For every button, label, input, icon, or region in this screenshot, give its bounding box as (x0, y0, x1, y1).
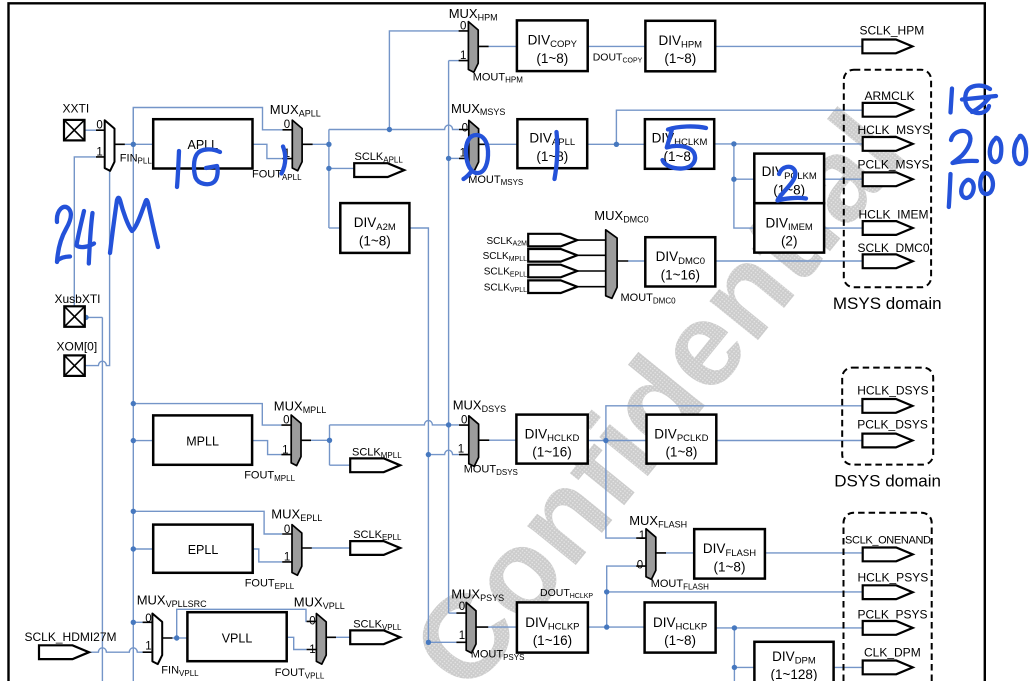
junction A2M bus at MUXPSYS1 (426, 640, 431, 645)
pin stubs MUX_FLASH (636, 538, 666, 566)
svg-text:SCLK_ONENAND: SCLK_ONENAND (845, 535, 931, 547)
svg-text:(1~8): (1~8) (664, 633, 696, 648)
wire FIN_VPLL to MUX_VPLL input0 (177, 609, 307, 638)
svg-text:SCLK_DMC0: SCLK_DMC0 (858, 241, 930, 255)
junction HCLKM branch (731, 141, 736, 146)
wire FIN to MPLL input (133, 440, 153, 442)
wire FIN to EPLL input (133, 548, 153, 550)
svg-text:(1~8): (1~8) (664, 51, 696, 66)
wire A2M bus to MUX_DSYS input1 with hop over MPLL bus (428, 450, 459, 454)
wire MPLL out to MUX_MPLL input1 (252, 441, 282, 455)
divider DIV_IMEM (754, 203, 824, 252)
wire APLL out to MUX_APLL input1 (252, 144, 282, 158)
junction MOUT_MPLL (327, 438, 332, 443)
wire node SCLKMPLL vertical (329, 425, 331, 465)
svg-text:(1~8): (1~8) (665, 445, 697, 460)
wire DIV_HCLKP16 out to DIV_HCLKP8 (588, 626, 645, 628)
pin stubs MUX_DMC0 inputs and output (577, 240, 628, 287)
wire XusbXTI bus x=102.4 (101, 317, 103, 681)
wire MUX_APLL output junction (312, 143, 329, 145)
wire node HCLK_DSYS branch (606, 406, 863, 441)
annotation handwritten 200 (951, 131, 977, 163)
svg-text:HCLK_MSYS: HCLK_MSYS (858, 123, 931, 137)
mux MUX_MSYS (469, 120, 479, 171)
annotation 2 on DIV_PCLKM (778, 167, 807, 201)
svg-text:XOM[0]: XOM[0] (57, 340, 98, 354)
output arrow PCLK_PSYS (863, 621, 913, 635)
pin stubs MUX_APLL (283, 130, 313, 159)
junction FIN at MUXVPLLSRC0 (131, 620, 136, 625)
divider DIV_HPM (645, 21, 715, 72)
svg-text:(1~16): (1~16) (532, 445, 571, 460)
annotation handwritten 100 (949, 174, 951, 207)
wire FINPLL mux output to APLL (124, 143, 153, 145)
wire node CLK_DPM feed to DIV_DPM (733, 628, 735, 681)
wire node DOUT_HCLKP up to MUX_FLASH input0 (607, 566, 637, 627)
svg-text:0: 0 (459, 601, 465, 613)
pin stubs MUX_FINPLL (96, 130, 125, 157)
svg-text:1: 1 (96, 146, 102, 158)
pin stubs MUX_VPLL (307, 621, 336, 649)
svg-text:CLK_DPM: CLK_DPM (864, 645, 921, 659)
wire SCLK_MPLL arrow feed (330, 464, 351, 466)
input arrow SCLK_HDMI27M (39, 645, 89, 659)
wire MPLL bus to MUX_PSYS input0 (449, 612, 457, 614)
svg-text:HCLK_PSYS: HCLK_PSYS (858, 570, 929, 584)
mux MUX_PSYS (466, 602, 476, 653)
svg-text:1: 1 (639, 530, 645, 542)
svg-text:XusbXTI: XusbXTI (55, 292, 101, 306)
pin stubs MUX_MSYS (459, 130, 489, 159)
svg-text:0: 0 (283, 415, 289, 427)
output arrow HCLK_PSYS (863, 585, 913, 599)
svg-text:(1~16): (1~16) (533, 633, 572, 648)
junction DOUT_HCLKP (604, 624, 609, 629)
svg-text:1: 1 (145, 641, 151, 653)
svg-text:1: 1 (282, 444, 288, 456)
wire node HCLKM vertical feed PCLKM/IMEM (734, 144, 754, 228)
junction PCLKM feed (731, 177, 736, 182)
wire XOM[0] select with hop over x=102.4 (86, 169, 110, 366)
svg-text:DSYS domain: DSYS domain (834, 471, 941, 490)
annotation stroke on MUX_APLL pin1 (282, 147, 286, 174)
input arrow SCLKEPLL to DMC0 (528, 265, 577, 278)
svg-text:PCLK_DSYS: PCLK_DSYS (857, 418, 928, 432)
divider DIV_COPY (517, 20, 588, 71)
mux MUX_DSYS (469, 416, 479, 467)
wire DIV_A2M out to SCLKA2M bus (409, 228, 428, 642)
pin stubs MUX_MPLL (281, 425, 311, 455)
divider DIV_FLASH (694, 529, 765, 579)
svg-text:MPLL: MPLL (186, 435, 219, 449)
output arrow SCLK_EPLL (350, 541, 400, 555)
wire DIV_DMC0 out to SCLK_DMC0 (715, 260, 862, 262)
wire XusbXTI top to FINPLL mux input1 (74, 157, 96, 306)
wire DIV_PCLKM out to PCLK_MSYS (824, 178, 863, 180)
wire MUX_HPM out to DIV_COPY (488, 45, 517, 47)
svg-text:MSYS domain: MSYS domain (833, 294, 942, 313)
output arrow SCLK_HPM (862, 40, 912, 54)
input arrow SCLKMPLL to DMC0 (528, 249, 577, 262)
svg-text:(1~8): (1~8) (714, 559, 746, 574)
svg-text:0: 0 (309, 615, 315, 627)
junction branch MUXHPM0 (387, 127, 392, 132)
wire MUX_PSYS out to DIV_HCLKP16 (488, 626, 517, 628)
wire FIN to MUX_EPLL input0 (133, 511, 282, 534)
pll VPLL (187, 612, 286, 661)
annotation oval on MUX_MSYS (464, 135, 489, 179)
wire DIV_HCLKP8 out to PCLK_PSYS (716, 627, 863, 629)
wire MUX_VPLL out to SCLK_VPLL (336, 636, 350, 638)
output arrow SCLK_MPLL (350, 458, 400, 472)
divider DIV_APLL (517, 119, 587, 168)
junction SCLK_APLL (326, 166, 331, 171)
junction FIN at MUXMPLL0 (131, 401, 136, 406)
wire MUX_DMC0 out to DIV_DMC0 (628, 260, 645, 262)
svg-text:(1~8): (1~8) (536, 149, 568, 164)
svg-text:0: 0 (460, 21, 466, 33)
output arrow SCLK_APLL (354, 163, 404, 177)
domain box MSYS (844, 70, 931, 288)
divider DIV_PCLKD (647, 415, 717, 464)
pin stubs MUX_PSYS (456, 613, 488, 642)
domain box PSYS (844, 513, 932, 681)
junction FIN at MUXEPLL0 (131, 509, 136, 514)
mux MUX_DMC0 (606, 230, 617, 299)
wire FIN to MUX_VPLLSRC input0 (133, 621, 142, 623)
wire EPLL out to MUX_EPLL input1 (253, 549, 283, 562)
junction XusbXTI (83, 315, 88, 320)
wire DIV_HCLKM to HCLK_MSYS arrow (714, 143, 863, 145)
svg-text:1: 1 (458, 444, 464, 456)
divider DIV_HCLKM (645, 119, 714, 169)
svg-text:HCLK_IMEM: HCLK_IMEM (859, 207, 929, 221)
input pad XusbXTI (64, 306, 85, 327)
wire MUX_MSYS out to DIV_APLL (489, 143, 518, 145)
wire MUX_DSYS out to DIV_HCLKD (489, 439, 516, 441)
input arrow SCLKVPLL to DMC0 (528, 280, 577, 293)
output arrow HCLK_MSYS (863, 137, 913, 151)
svg-text:SCLK_HPM: SCLK_HPM (860, 24, 925, 38)
wire DIV_IMEM out to HCLK_IMEM (824, 227, 863, 229)
wire VPLL out to MUX_VPLL input1 (287, 637, 307, 649)
svg-text:0: 0 (284, 119, 290, 131)
pin stubs MUX_EPLL (282, 534, 312, 562)
annotation handwritten 1G on APLL (177, 151, 179, 187)
input pad XXTI (64, 120, 85, 140)
svg-text:0: 0 (461, 415, 467, 427)
wire into DIV_DPM (734, 666, 754, 668)
wire SCLKAPLL to MUX_MSYS input0 with hop over MPLL bus (329, 125, 459, 129)
output arrow HCLK_DSYS (862, 399, 912, 413)
mux MUX_VPLLSRC (white) (152, 614, 162, 665)
divider DIV_DPM (754, 642, 833, 681)
input pad XOM[0] (64, 355, 85, 376)
mux MUX_FLASH (646, 529, 656, 580)
svg-text:0: 0 (637, 559, 643, 571)
wire MPLL bus top elbow to MUX_HPM input1 (449, 60, 459, 62)
svg-text:(1~16): (1~16) (661, 267, 700, 282)
junction MPLL bus tie (446, 422, 451, 427)
mux MUX_HPM (468, 22, 478, 73)
wire FIN to MUX_APLL input0 (133, 108, 282, 145)
wire MPLL bus to MUX_MSYS input1 (449, 157, 459, 159)
mux MUX_APLL (292, 120, 302, 171)
wire MOUT_MPLL to MUX_DSYS input0 with hop over A2M bus (330, 420, 460, 424)
junction ARMCLK branch (614, 142, 619, 147)
input arrow SCLKA2M to DMC0 (528, 234, 577, 247)
divider DIV_DMC0 (645, 237, 715, 286)
pll APLL (153, 119, 252, 168)
svg-text:1: 1 (284, 552, 290, 564)
output arrow PCLK_DSYS (862, 434, 912, 448)
svg-text:0: 0 (462, 123, 468, 135)
wire DIV_DPM out to CLK_DPM (834, 666, 863, 668)
svg-text:VPLL: VPLL (222, 631, 253, 645)
wire SCLKAPLL arrow feed (329, 167, 354, 169)
annotation stroke 1 on DIV_APLL (555, 132, 558, 179)
wire SCLKAPLL to DIV_A2M (329, 227, 340, 229)
divider DIV_HCLKD (516, 415, 587, 464)
wire HCLKD down to MUX_FLASH input1 (606, 441, 636, 539)
mux FIN_PLL (white) (105, 120, 115, 171)
wire A2M bus to MUX_PSYS input1 (428, 641, 456, 643)
wire node SCLKAPLL vertical x=328.9 (328, 129, 330, 228)
junction PCLK_PSYS branch (732, 625, 737, 630)
wire XXTI to FINPLL mux input0 (85, 129, 97, 131)
svg-text:EPLL: EPLL (188, 543, 219, 557)
svg-text:1: 1 (459, 630, 465, 642)
svg-text:1: 1 (460, 50, 466, 62)
svg-text:0: 0 (284, 524, 290, 536)
junction DPM feed (732, 665, 737, 670)
junction FIN at APLL (131, 142, 136, 147)
junction FIN_VPLL (174, 635, 179, 640)
svg-text:(1~8): (1~8) (536, 51, 568, 66)
pll MPLL (153, 415, 252, 464)
svg-text:SCLK_HDMI27M: SCLK_HDMI27M (25, 630, 117, 644)
mux MUX_MPLL (291, 415, 301, 466)
pll EPLL (153, 525, 253, 573)
annotation handwritten 1G right margin (951, 89, 953, 113)
pin stubs MUX_DSYS (459, 425, 489, 455)
wire FIN to MUX_MPLL input0 (133, 404, 281, 426)
junction MPLL bus at MUXMSYS1 (446, 156, 451, 161)
wire DIV_APLL to DIV_HCLKM, branch ARMCLK (587, 143, 645, 145)
wire XusbXTI right to bus (86, 316, 103, 318)
svg-text:XXTI: XXTI (63, 102, 90, 116)
divider DIV_HCLKP8 (645, 602, 716, 652)
mux MUX_EPLL (292, 525, 302, 576)
divider DIV_PCLKM (754, 154, 824, 204)
svg-text:PCLK_MSYS: PCLK_MSYS (858, 157, 930, 171)
svg-text:1: 1 (309, 644, 315, 656)
wire MUX_FLASH out to DIV_FLASH (666, 552, 694, 554)
wire MUX_VPLLSRC out to VPLL (172, 637, 187, 639)
svg-text:(1~8): (1~8) (359, 233, 391, 248)
output arrow SCLK_VPLL (350, 630, 400, 644)
output arrow SCLK_ONENAND (863, 548, 913, 562)
wire node HCLK_PSYS branch (607, 591, 863, 593)
wire MUX_MPLL out junction (311, 439, 330, 441)
junction FIN at MPLL (131, 438, 136, 443)
wire SCLK_HDMI27M to MUX_VPLLSRC input1 with two hops (89, 648, 143, 652)
svg-text:(2): (2) (781, 234, 798, 249)
junction MOUT_APLL (326, 142, 331, 147)
junction HCLK_DSYS branch (603, 438, 608, 443)
junction FIN at EPLL (131, 546, 136, 551)
divider DIV_A2M (340, 203, 409, 253)
svg-text:ARMCLK: ARMCLK (865, 89, 915, 103)
annotation handwritten 24M (57, 207, 71, 262)
svg-text:0: 0 (145, 613, 151, 625)
junction HCLK_PSYS branch (604, 589, 609, 594)
junction A2M bus at MUXDSYS1 (426, 452, 431, 457)
svg-text:PCLK_PSYS: PCLK_PSYS (858, 608, 928, 622)
svg-text:HCLK_DSYS: HCLK_DSYS (857, 384, 928, 398)
wire DIV_PCLKD to PCLK_DSYS (717, 440, 863, 442)
output arrow ARMCLK (863, 103, 913, 117)
output arrow HCLK_IMEM (863, 221, 913, 235)
domain box DSYS (842, 368, 933, 465)
wire DIV_HPM to SCLK_HPM (715, 45, 862, 47)
output arrow CLK_DPM (863, 661, 913, 675)
pin stubs MUX_HPM (459, 31, 489, 61)
wire DIV_COPY to DIV_HPM (588, 45, 646, 47)
wire node ARMCLK (616, 110, 862, 144)
svg-text:0: 0 (96, 119, 102, 131)
wire MPLL bus x=448.6 (448, 61, 450, 614)
output arrow PCLK_MSYS (863, 172, 913, 186)
divider DIV_HCLKP16 (517, 602, 588, 652)
wire MUX_EPLL out to SCLK_EPLL (312, 547, 351, 549)
svg-text:(1~128): (1~128) (771, 667, 818, 681)
wire FIN_PLL vertical bus x=133.3 (132, 108, 134, 681)
mux MUX_VPLL (316, 614, 326, 665)
wire DIV_FLASH out to SCLK_ONENAND (765, 552, 863, 554)
wire to DIV_PCLKM input (734, 178, 754, 180)
output arrow SCLK_DMC0 (863, 254, 913, 268)
wire DIV_HCLKD to DIV_PCLKD (588, 440, 647, 442)
pin stubs MUX_VPLLSRC (143, 622, 173, 652)
annotation 5 on DIV_HCLKM (668, 126, 706, 129)
wire branch up to MUX_HPM input0 (389, 31, 458, 130)
